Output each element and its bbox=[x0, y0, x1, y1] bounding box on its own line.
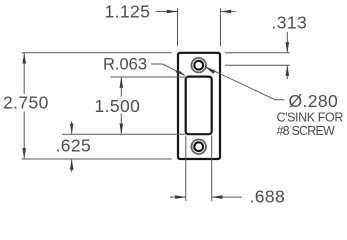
dim 1.125 dimension line left bbox=[156, 11, 178, 13]
dim 1.125 dimension line right bbox=[221, 11, 236, 13]
svg-text:1.500: 1.500 bbox=[95, 96, 141, 116]
latch cutout bbox=[186, 77, 212, 135]
dim .625 lower arrow bbox=[71, 159, 73, 172]
bottom screw hole bbox=[194, 142, 203, 151]
dim .313 upper arrow bbox=[286, 32, 288, 53]
dim 1.125 right arrowhead bbox=[221, 10, 232, 14]
svg-text:.625: .625 bbox=[56, 136, 92, 156]
bottom countersink circles bbox=[192, 140, 206, 154]
dim 2.750 up arrowhead bbox=[22, 53, 26, 64]
leader dia .280 arrowhead bbox=[205, 67, 215, 74]
top screw hole bbox=[194, 61, 203, 70]
dim 2.750 down arrowhead bbox=[22, 148, 26, 159]
dim 1.500 down arrowhead bbox=[120, 124, 124, 135]
dim .625 upper arrow bbox=[71, 121, 73, 134]
dim 1.125 left arrowhead bbox=[167, 10, 178, 14]
dim .688 dimension line left bbox=[170, 196, 186, 198]
top countersink circles bbox=[192, 58, 206, 72]
dim 1.500 up arrowhead bbox=[120, 77, 124, 88]
svg-text:2.750: 2.750 bbox=[3, 93, 49, 113]
dim 2.750 extension lines bbox=[22, 53, 172, 159]
leader R.063 bbox=[151, 64, 185, 75]
dim 2.750 dimension line bbox=[23, 53, 25, 159]
dim 1.500 dimension line bbox=[120, 77, 122, 134]
svg-text:C'SINK FOR: C'SINK FOR bbox=[277, 111, 344, 125]
dim .313 extension lines bbox=[225, 53, 290, 65]
dim 1.125 extension lines bbox=[178, 9, 221, 47]
svg-text:#8 SCREW: #8 SCREW bbox=[277, 124, 336, 138]
svg-text:.688: .688 bbox=[250, 187, 286, 207]
leader dia .280 bbox=[205, 67, 284, 100]
strike plate outline bbox=[178, 53, 220, 159]
svg-text:1.125: 1.125 bbox=[105, 2, 151, 22]
dim .313 lower arrow bbox=[286, 65, 288, 79]
dim .688 dimension line right bbox=[212, 196, 242, 198]
leader R.063 arrowhead bbox=[176, 69, 187, 76]
svg-text:R.063: R.063 bbox=[103, 56, 147, 74]
svg-text:.313: .313 bbox=[272, 13, 308, 33]
dim .688 extension lines bbox=[186, 136, 212, 202]
svg-text:Ø.280: Ø.280 bbox=[289, 91, 339, 111]
dim .625 extension line (cutout bottom) bbox=[62, 133, 186, 135]
dim 1.500 extension line top bbox=[111, 76, 188, 78]
